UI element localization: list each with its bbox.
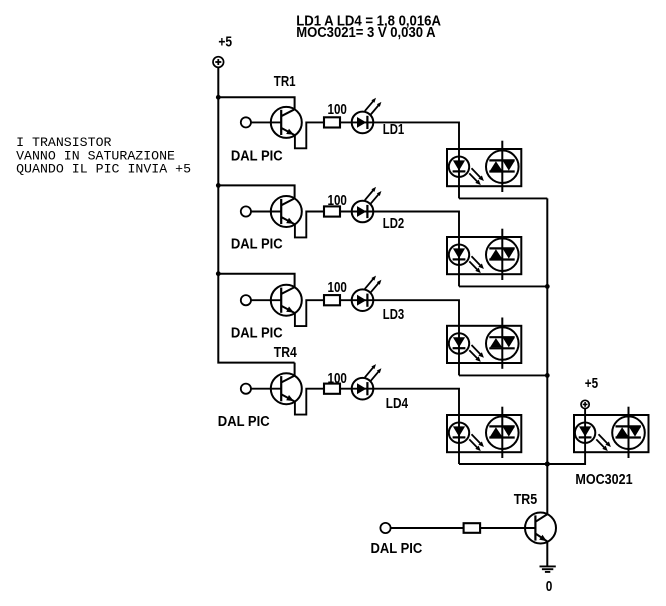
svg-text:+5: +5 bbox=[585, 376, 598, 392]
node rail row 1 bbox=[216, 95, 221, 100]
transistor TR2 bbox=[271, 196, 302, 227]
LED LD2 bbox=[352, 187, 382, 222]
svg-text:LD2: LD2 bbox=[383, 216, 404, 232]
node bus row 2 bbox=[545, 284, 550, 289]
node rail row 3 bbox=[216, 271, 221, 276]
optocoupler OC3 bbox=[447, 318, 521, 369]
LED LD1 bbox=[352, 98, 382, 133]
wire LD3 to opto 3 bbox=[373, 300, 459, 375]
svg-text:DAL PIC: DAL PIC bbox=[231, 149, 283, 165]
terminal DAL PIC 5 bbox=[380, 523, 390, 533]
wire base TR2 bbox=[251, 211, 281, 213]
wire opto 3 to bus bbox=[459, 374, 547, 376]
node bus row 3 bbox=[545, 373, 550, 378]
resistor R2 100 bbox=[324, 206, 340, 216]
svg-text:LD4: LD4 bbox=[386, 396, 408, 412]
wire MOC exit to node bbox=[547, 452, 585, 464]
node main collector junction bbox=[545, 462, 550, 467]
wire opto 4 to bus bbox=[459, 463, 547, 465]
transistor TR5 bbox=[525, 513, 556, 544]
svg-text:100: 100 bbox=[328, 193, 347, 209]
note text bbox=[16, 135, 191, 176]
svg-text:TR5: TR5 bbox=[514, 492, 538, 508]
svg-text:LD1: LD1 bbox=[383, 122, 404, 138]
resistor R5 bbox=[464, 523, 481, 533]
svg-text:DAL PIC: DAL PIC bbox=[218, 414, 270, 430]
svg-text:TR4: TR4 bbox=[274, 345, 297, 361]
wire R5 to TR5 bbox=[480, 527, 535, 529]
wire emitter TR4 to R4 bbox=[295, 389, 324, 415]
svg-text:MOC3021= 3 V 0,030 A: MOC3021= 3 V 0,030 A bbox=[296, 25, 436, 41]
terminal DAL PIC 3 bbox=[241, 295, 251, 305]
wire common bus bbox=[546, 198, 548, 464]
optocoupler OC2 bbox=[447, 229, 521, 280]
svg-text:MOC3021: MOC3021 bbox=[575, 472, 632, 488]
svg-text:100: 100 bbox=[328, 280, 347, 296]
wire R3 to LD3 bbox=[340, 299, 373, 301]
LED LD3 bbox=[352, 276, 382, 311]
svg-text:+5: +5 bbox=[218, 35, 232, 51]
svg-text:100: 100 bbox=[328, 371, 347, 387]
ground bbox=[540, 566, 556, 572]
svg-text:QUANDO IL PIC INVIA +5: QUANDO IL PIC INVIA +5 bbox=[16, 161, 191, 176]
wire TR5 collector bbox=[546, 464, 548, 514]
wire base TR3 bbox=[251, 299, 281, 301]
wire base TR4 bbox=[251, 388, 281, 390]
optocoupler OC1 bbox=[447, 141, 521, 192]
wire +5 rail bbox=[218, 67, 294, 362]
LED LD4 bbox=[352, 364, 382, 399]
resistor R1 100 bbox=[324, 117, 340, 127]
wire emitter TR2 to R2 bbox=[295, 212, 324, 238]
wire opto 1 to bus bbox=[459, 197, 547, 199]
terminal DAL PIC 2 bbox=[241, 206, 251, 216]
wire base TR5 bbox=[391, 527, 464, 529]
svg-text:DAL PIC: DAL PIC bbox=[231, 326, 283, 342]
svg-text:DAL PIC: DAL PIC bbox=[371, 541, 423, 557]
wire LD1 to opto 1 bbox=[373, 122, 459, 198]
wire R2 to LD2 bbox=[340, 211, 373, 213]
wire collector TR3 to rail bbox=[218, 274, 294, 287]
svg-text:DAL PIC: DAL PIC bbox=[231, 237, 283, 253]
svg-text:LD3: LD3 bbox=[383, 307, 404, 323]
optocoupler MOC3021 bbox=[574, 407, 649, 458]
wire collector TR2 to rail bbox=[218, 185, 294, 198]
svg-text:TR1: TR1 bbox=[274, 74, 296, 90]
transistor TR1 bbox=[271, 107, 302, 138]
wire emitter TR1 to R1 bbox=[295, 122, 324, 148]
terminal DAL PIC 1 bbox=[241, 117, 251, 127]
transistor TR3 bbox=[271, 285, 302, 316]
wire base TR1 bbox=[251, 121, 281, 123]
wire opto 2 to bus bbox=[459, 285, 547, 287]
optocoupler OC4 bbox=[447, 407, 521, 458]
wire LD2 to opto 2 bbox=[373, 212, 459, 287]
resistor R3 100 bbox=[324, 295, 340, 305]
terminal +5 MOC bbox=[581, 400, 589, 408]
resistor R4 100 bbox=[324, 384, 340, 394]
node bus row 4 bbox=[545, 462, 550, 467]
node rail row 2 bbox=[216, 183, 221, 188]
wire collector TR4 drop bbox=[294, 363, 296, 376]
wire emitter TR3 to R3 bbox=[295, 300, 324, 326]
wire R1 to LD1 bbox=[340, 121, 373, 123]
wire +5 to MOC LED bbox=[584, 409, 586, 453]
transistor TR4 bbox=[271, 373, 302, 404]
wire collector TR1 to rail bbox=[218, 97, 294, 109]
wire R4 to LD4 bbox=[340, 388, 373, 390]
wire LD4 to opto 4 bbox=[373, 389, 459, 464]
svg-text:100: 100 bbox=[328, 102, 347, 118]
svg-text:0: 0 bbox=[546, 579, 553, 595]
terminal DAL PIC 4 bbox=[241, 384, 251, 394]
wire TR5 emitter to ground bbox=[546, 542, 548, 566]
terminal +5 top bbox=[213, 57, 224, 68]
